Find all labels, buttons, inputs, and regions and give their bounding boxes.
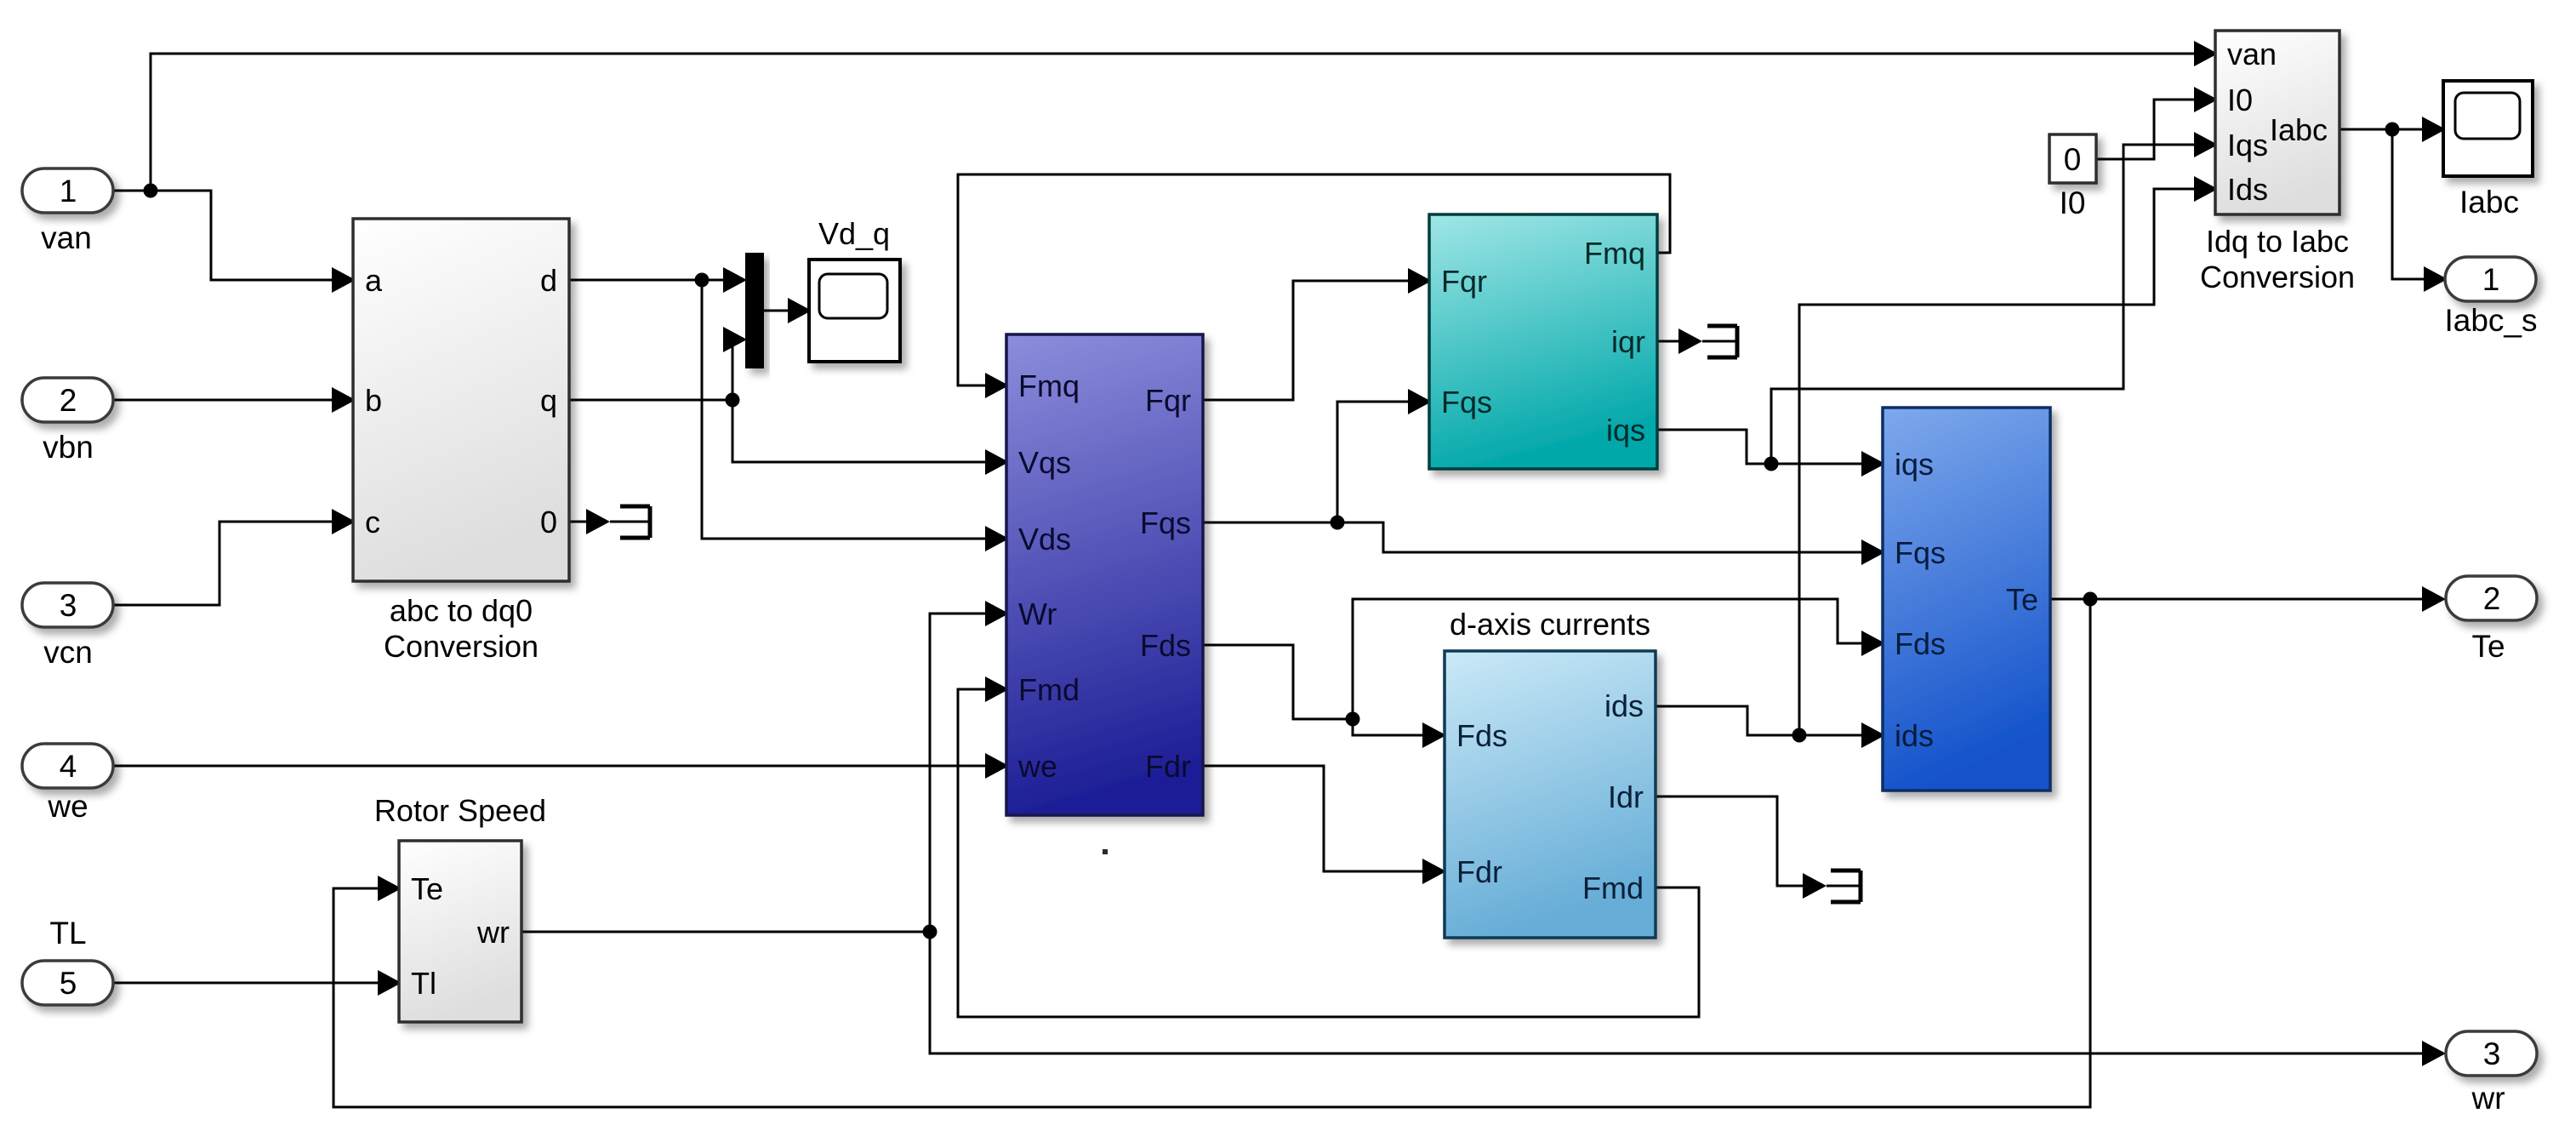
wire q output to node: [569, 399, 732, 402]
wire iqs output to node: [1657, 430, 1771, 464]
svg-text:d-axis currents: d-axis currents: [1450, 607, 1650, 642]
wire wr node down to outport wr: [930, 932, 2422, 1053]
svg-text:Te: Te: [2471, 629, 2505, 664]
constant I0: [2049, 134, 2096, 220]
terminator T3 after Idr port: [1831, 871, 1861, 902]
wire d node down to Vds port: [702, 280, 985, 539]
inport 1 van: [22, 168, 113, 255]
svg-text:5: 5: [60, 966, 77, 1001]
block q-axis currents (teal): [1429, 214, 1657, 469]
wire d output to mux input 1: [569, 279, 723, 282]
svg-text:Idq to Iabc: Idq to Iabc: [2206, 224, 2349, 259]
wire Fds node down to d-axis Fds port: [1353, 719, 1422, 735]
block d-axis currents (light blue): [1445, 607, 1656, 938]
svg-text:Conversion: Conversion: [384, 629, 539, 664]
wire we inport to we port: [113, 765, 985, 768]
terminator T2 after iqr port: [1707, 326, 1737, 357]
wire I0 constant to Idq I0 port: [2096, 100, 2194, 159]
wire Fmq feedback from teal block to purple block: [958, 174, 1670, 385]
wire Te feedback down and left to Rotor Speed Te port: [333, 599, 2090, 1107]
svg-text:Rotor Speed: Rotor Speed: [374, 793, 546, 828]
svg-text:we: we: [47, 789, 88, 824]
svg-text:Fqs: Fqs: [1441, 385, 1492, 420]
svg-text:Wr: Wr: [1018, 597, 1057, 631]
svg-text:van: van: [41, 220, 92, 255]
wire wr output to node: [521, 931, 930, 933]
svg-text:Fmd: Fmd: [1582, 871, 1644, 905]
annotation dot: [1103, 849, 1108, 854]
svg-text:0: 0: [540, 505, 557, 539]
wire Fqs node up to teal Fqs port: [1337, 402, 1408, 522]
svg-text:Fqs: Fqs: [1895, 535, 1946, 570]
svg-text:c: c: [365, 505, 380, 539]
svg-text:Vds: Vds: [1018, 522, 1071, 557]
wire vbn to port b: [113, 399, 332, 402]
block abc to dq0 Conversion: [353, 219, 569, 664]
wire iqr output to terminator T2: [1657, 340, 1735, 343]
mux Vd_q: [745, 253, 764, 368]
junction node q: [726, 393, 740, 408]
svg-text:ids: ids: [1604, 688, 1644, 723]
block q-axis fluxes (purple): [1006, 334, 1203, 815]
wire q node up to mux input 2: [723, 340, 732, 400]
svg-text:Fqr: Fqr: [1441, 264, 1487, 299]
wire Fqs node to blue block Fqs port: [1337, 522, 1861, 552]
wire van node to port a of abc-to-dq0: [151, 191, 332, 280]
svg-text:Vd_q: Vd_q: [818, 216, 890, 251]
scope Iabc: [2443, 81, 2533, 220]
wire Fds node up and right to blue block Fds port: [1353, 599, 1861, 719]
svg-text:b: b: [365, 383, 382, 418]
svg-text:vcn: vcn: [43, 635, 93, 670]
svg-text:iqr: iqr: [1611, 324, 1645, 359]
wire ids output to node: [1656, 706, 1799, 735]
wire Fdr output to d-axis Fdr port: [1203, 766, 1422, 871]
svg-text:TL: TL: [49, 916, 86, 950]
svg-text:we: we: [1017, 749, 1057, 784]
svg-text:Iqs: Iqs: [2227, 128, 2268, 163]
svg-text:wr: wr: [476, 915, 510, 950]
junction node Iabc: [2385, 123, 2400, 137]
svg-text:Te: Te: [411, 871, 443, 906]
wire vcn to port c: [113, 522, 332, 605]
wire van inport to node: [113, 190, 151, 192]
svg-text:Ids: Ids: [2227, 172, 2268, 207]
svg-text:Te: Te: [2006, 582, 2038, 617]
outport 3 wr: [2446, 1031, 2537, 1116]
block Rotor Speed: [374, 793, 546, 1022]
junction node Fds: [1346, 712, 1360, 727]
svg-text:Fqr: Fqr: [1145, 383, 1191, 418]
svg-text:Iabc: Iabc: [2270, 112, 2328, 147]
inport 2 vbn: [22, 378, 113, 465]
inport 4 we: [22, 744, 113, 824]
wire Idr output to terminator T3: [1656, 796, 1859, 886]
svg-text:Fds: Fds: [1140, 628, 1191, 663]
svg-text:a: a: [365, 263, 383, 298]
wire 0 output to terminator T1: [569, 521, 648, 523]
svg-text:Fmd: Fmd: [1018, 672, 1080, 707]
junction node ids: [1792, 728, 1807, 743]
outport 2 Te: [2446, 576, 2537, 664]
wire Iabc node to scope Iabc: [2392, 128, 2422, 131]
block Idq to Iabc Conversion: [2200, 31, 2355, 294]
wire Iabc output to node: [2339, 128, 2392, 131]
svg-text:Tl: Tl: [411, 966, 436, 1001]
wire iqs node to blue block iqs port: [1771, 463, 1861, 465]
svg-text:Fqs: Fqs: [1140, 505, 1191, 540]
wire Te node to outport Te: [2090, 598, 2422, 601]
wire TL inport to Tl port: [113, 982, 378, 985]
wire van node up to Idq van port: [151, 54, 2194, 191]
svg-text:3: 3: [2483, 1036, 2501, 1071]
svg-text:Fmq: Fmq: [1018, 368, 1080, 403]
svg-text:Fdr: Fdr: [1456, 854, 1502, 889]
outport 1 Iabc_s: [2444, 257, 2537, 338]
svg-text:q: q: [540, 383, 557, 418]
junction node Te: [2083, 592, 2098, 607]
svg-text:Iabc_s: Iabc_s: [2444, 303, 2537, 338]
inport 3 vcn: [22, 583, 113, 670]
junction node Fqs: [1331, 516, 1345, 530]
junction node wr: [923, 925, 938, 939]
svg-text:iqs: iqs: [1895, 447, 1934, 482]
svg-text:Fds: Fds: [1895, 626, 1946, 661]
inport 5 TL: [22, 916, 113, 1005]
svg-text:2: 2: [60, 383, 77, 418]
svg-text:Fds: Fds: [1456, 718, 1507, 753]
svg-text:I0: I0: [2227, 83, 2253, 117]
terminator T1 after 0 port: [620, 506, 650, 538]
wire Te output to node: [2050, 598, 2090, 601]
wire Iabc node down to outport Iabc_s: [2392, 129, 2424, 279]
svg-text:Iabc: Iabc: [2459, 185, 2519, 220]
svg-text:van: van: [2227, 37, 2277, 71]
svg-text:Fdr: Fdr: [1145, 749, 1191, 784]
wire ids node to blue block ids port: [1799, 734, 1861, 737]
svg-text:1: 1: [60, 174, 77, 208]
wire iqs node up to Idq Iqs port: [1771, 145, 2194, 464]
svg-text:ids: ids: [1895, 718, 1934, 753]
svg-text:4: 4: [60, 749, 77, 784]
wire mux output to scope Vd_q: [764, 310, 788, 312]
arrowheads into ports: [332, 41, 2448, 1066]
svg-text:1: 1: [2482, 262, 2500, 297]
svg-text:Conversion: Conversion: [2200, 260, 2355, 294]
wire Fqr output to teal Fqr port: [1203, 281, 1408, 400]
wire Fds output to node: [1203, 645, 1353, 719]
svg-text:0: 0: [2064, 142, 2082, 177]
svg-text:Fmq: Fmq: [1584, 236, 1645, 271]
svg-text:vbn: vbn: [43, 430, 94, 465]
wire Fmd feedback from d-axis block to purple block: [958, 689, 1699, 1017]
junction node d: [695, 273, 710, 288]
junction node van: [144, 184, 158, 198]
svg-text:I0: I0: [2060, 186, 2086, 220]
junction node iqs: [1764, 457, 1779, 471]
svg-text:3: 3: [60, 588, 77, 623]
block Te calculation (blue): [1883, 408, 2050, 791]
wire wr node up to purple Wr port: [930, 614, 985, 932]
wire q node down to Vqs port: [732, 400, 985, 462]
scope Vd_q: [809, 216, 900, 362]
svg-text:Vqs: Vqs: [1018, 445, 1071, 480]
svg-text:d: d: [540, 263, 557, 298]
svg-text:iqs: iqs: [1606, 413, 1645, 448]
svg-text:abc to dq0: abc to dq0: [390, 593, 533, 628]
svg-text:2: 2: [2483, 581, 2501, 616]
svg-text:wr: wr: [2471, 1081, 2505, 1116]
svg-text:Idr: Idr: [1608, 779, 1644, 814]
wire ids node up to Idq Ids port: [1799, 189, 2194, 735]
wire Fqs output to node: [1203, 522, 1337, 524]
